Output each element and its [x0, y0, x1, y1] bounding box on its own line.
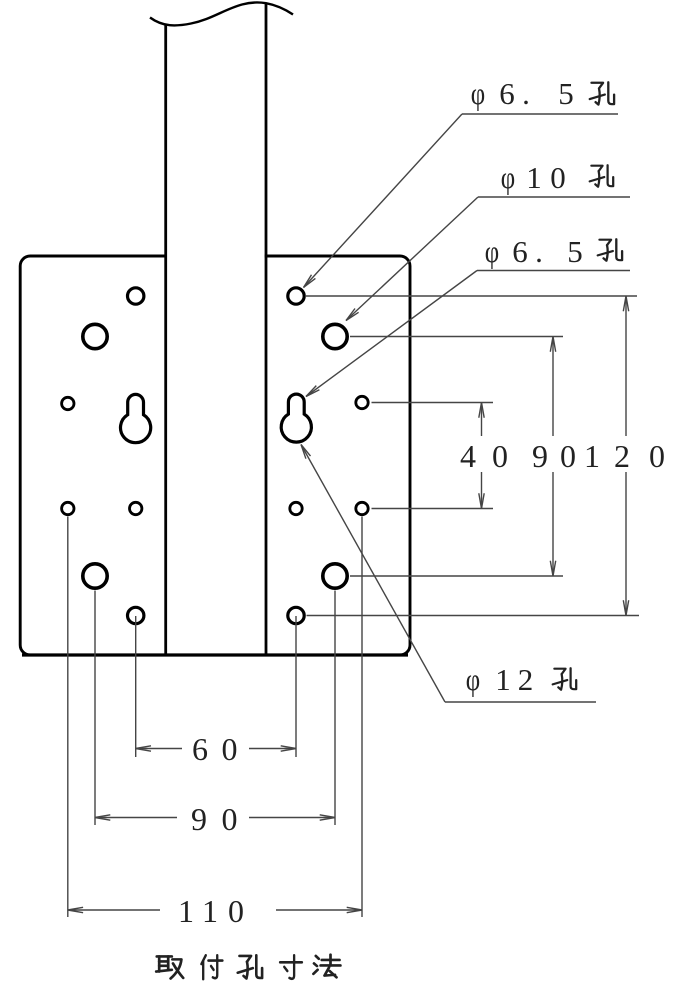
hole phi6.5 top-left: [128, 288, 144, 304]
svg-text:1: 1: [202, 893, 218, 929]
dimension 120 line: [625, 296, 627, 436]
dimension 60 line: [136, 748, 182, 750]
svg-text:φ: φ: [471, 76, 485, 112]
hole phi6.5 row3 right-a: [290, 502, 302, 514]
dimension 40 line: [481, 403, 483, 437]
svg-text:φ: φ: [501, 160, 515, 196]
keyhole slot left: [121, 394, 151, 442]
dimension 90 bottom line: [95, 817, 177, 819]
plate outline: [20, 256, 410, 655]
extension line row y296: [306, 295, 637, 297]
extension line col x68: [67, 517, 69, 918]
hole phi10 upper-right: [323, 324, 347, 348]
extension line row y402: [372, 402, 494, 404]
extension line row y615: [307, 615, 640, 617]
svg-text:2: 2: [614, 438, 630, 474]
svg-text:6: 6: [499, 76, 515, 111]
hole phi6.5 bottom-right: [288, 607, 304, 623]
svg-text:1: 1: [584, 438, 600, 474]
pole body: [167, 0, 265, 653]
keyhole slot right: [281, 394, 311, 442]
hole phi10 lower-left: [83, 564, 107, 588]
hole phi6.5 row3 left-a: [62, 502, 74, 514]
extension line col x296: [295, 616, 297, 757]
hole phi10 lower-right: [323, 564, 347, 588]
hole phi6.5 row3 left-b: [130, 502, 142, 514]
hole phi6.5 mid-left: [62, 397, 74, 409]
svg-text:0: 0: [222, 801, 238, 837]
plate bottom edge: [22, 653, 408, 656]
hole phi10 upper-left: [83, 324, 107, 348]
svg-text:1: 1: [526, 160, 542, 195]
extension line row y508: [372, 508, 494, 510]
svg-text:9: 9: [532, 438, 548, 474]
extension line col x95: [94, 591, 96, 826]
svg-text:6: 6: [192, 731, 208, 767]
svg-text:0: 0: [492, 438, 508, 474]
svg-text:.: .: [522, 76, 530, 111]
leader phi6.5 second: [306, 271, 477, 397]
hole phi6.5 bottom-left: [128, 607, 144, 623]
leader phi6.5 top: [304, 114, 463, 288]
svg-text:6: 6: [512, 234, 528, 269]
svg-text:5: 5: [567, 234, 583, 269]
svg-text:5: 5: [558, 76, 574, 111]
extension line col x335: [334, 591, 336, 826]
extension line row y336: [350, 336, 563, 338]
leader phi12: [301, 445, 445, 703]
dimension 90 line: [552, 337, 554, 437]
extension line col x136: [135, 616, 137, 757]
svg-text:2: 2: [518, 662, 534, 697]
svg-text:1: 1: [178, 893, 194, 929]
svg-text:0: 0: [550, 160, 566, 195]
svg-text:φ: φ: [466, 662, 480, 698]
dimension 110 line: [68, 909, 160, 911]
svg-text:0: 0: [560, 438, 576, 474]
extension line row y576: [350, 575, 563, 577]
pole break wavy line: [150, 2, 293, 25]
hole phi6.5 top-right: [288, 288, 304, 304]
leader phi10: [346, 197, 478, 321]
pole left edge: [164, 24, 167, 655]
svg-text:.: .: [535, 234, 543, 269]
svg-text:0: 0: [222, 731, 238, 767]
svg-text:1: 1: [495, 662, 511, 697]
svg-text:4: 4: [460, 438, 476, 474]
svg-text:0: 0: [228, 893, 244, 929]
extension line col x362: [361, 517, 363, 918]
hole phi6.5 mid-right: [356, 396, 368, 408]
svg-text:0: 0: [649, 438, 665, 474]
title: mounting hole dimensions: [156, 956, 183, 978]
pole right edge: [265, 4, 268, 655]
hole phi6.5 row3 right-b: [356, 502, 368, 514]
svg-text:φ: φ: [485, 234, 499, 270]
svg-text:9: 9: [191, 801, 207, 837]
